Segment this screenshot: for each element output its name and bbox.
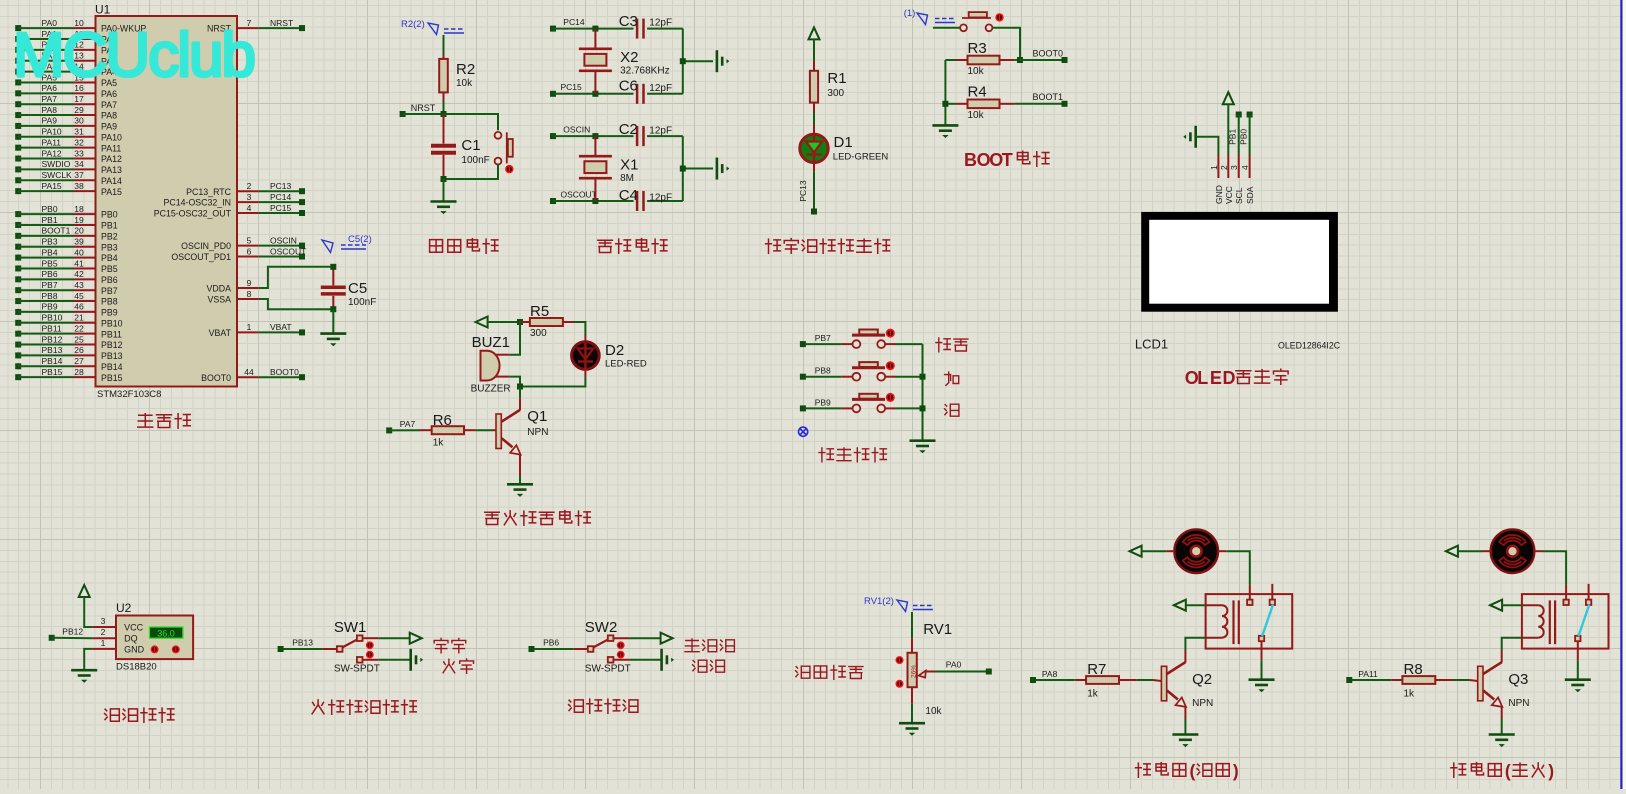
svg-text:NPN: NPN [1192, 698, 1213, 709]
power terminal (motor) [1446, 546, 1483, 557]
svg-text:PA11: PA11 [101, 143, 121, 153]
svg-text:8M: 8M [620, 173, 634, 184]
svg-text:41: 41 [74, 258, 84, 268]
svg-text:NRST: NRST [270, 18, 293, 28]
pin 17 PA7 wire/terminal PA7 [15, 94, 117, 110]
wire SW2 bottom [629, 659, 661, 661]
potentiometer RV1 10k [896, 621, 953, 717]
svg-text:PA8: PA8 [101, 111, 117, 121]
svg-text:9: 9 [247, 278, 252, 288]
pin 21 PB10 wire/terminal PB10 [15, 313, 122, 329]
wire relay contact to ground [1261, 660, 1263, 680]
svg-text:45: 45 [74, 291, 84, 301]
svg-text:Q3: Q3 [1508, 671, 1528, 688]
ground (alarm) [507, 484, 533, 497]
svg-text:Q1: Q1 [527, 408, 547, 425]
svg-text:GND: GND [1214, 185, 1224, 204]
svg-text:D2: D2 [605, 342, 624, 359]
transistor Q3 NPN [1478, 650, 1530, 719]
svg-text:43: 43 [74, 280, 84, 290]
svg-text:BOOT1: BOOT1 [1033, 92, 1064, 102]
ground keys [910, 441, 936, 454]
terminal PB7 [800, 333, 841, 347]
pin 14 PA4 wire/terminal PA4 [15, 61, 117, 77]
svg-text:26: 26 [74, 345, 84, 355]
wire relay contact to ground [1577, 660, 1579, 680]
pin 2 PC13_RTC [186, 181, 305, 197]
svg-text:PB9: PB9 [42, 302, 58, 312]
wire to BOOT button [933, 27, 960, 29]
power terminal (U2) [79, 585, 93, 627]
svg-text:PB0: PB0 [1238, 129, 1248, 145]
pin 19 PB1 wire/terminal PB1 [15, 215, 118, 231]
svg-text:PB12: PB12 [62, 627, 83, 637]
svg-text:PB4: PB4 [101, 253, 118, 263]
svg-text:LCD1: LCD1 [1135, 336, 1168, 351]
transistor Q2 NPN [1161, 650, 1213, 719]
svg-text:PC14-OSC32_IN: PC14-OSC32_IN [164, 198, 231, 208]
ground right [717, 50, 729, 72]
svg-text:PA9: PA9 [101, 122, 117, 132]
svg-text:PB3: PB3 [42, 237, 58, 247]
svg-text:D1: D1 [834, 134, 853, 151]
svg-text:VCC: VCC [1224, 186, 1234, 204]
svg-text:32.768KHz: 32.768KHz [620, 66, 669, 77]
wire D2 to junction [520, 377, 585, 387]
svg-text:R2: R2 [456, 61, 475, 78]
svg-text:C5: C5 [348, 280, 367, 297]
relay 继电器(通风) body [1206, 584, 1293, 660]
svg-text:PB15: PB15 [101, 373, 123, 383]
svg-text:37: 37 [74, 170, 84, 180]
ground BOOT circuit [932, 125, 958, 138]
svg-text:8: 8 [247, 289, 252, 299]
svg-text:OSCOUT: OSCOUT [561, 189, 597, 199]
pin 32 PA11 wire/terminal PA11 [15, 137, 121, 153]
wire PB1 to SCL pin [1238, 115, 1240, 156]
svg-text:VDDA: VDDA [207, 284, 232, 294]
junction collector node [517, 384, 523, 390]
wire top to R2 [443, 35, 445, 58]
svg-text:PB7: PB7 [42, 280, 58, 290]
power terminal (relay coil) [1174, 600, 1206, 611]
label 加 [945, 372, 959, 385]
pin 28 PB15 wire/terminal PB15 [15, 367, 122, 383]
wire emitter to ground [519, 476, 521, 484]
pin 37 PA14 wire/terminal SWCLK [15, 170, 122, 186]
svg-text:VCC: VCC [124, 623, 144, 633]
ground below C5 [320, 334, 346, 347]
junction C5 bottom [330, 306, 336, 312]
svg-text:B: B [964, 150, 977, 170]
svg-text:39: 39 [74, 237, 84, 247]
svg-text:PB0: PB0 [42, 204, 58, 214]
pin 26 PB13 wire/terminal PB13 [15, 345, 122, 361]
svg-text:PC13_RTC: PC13_RTC [186, 187, 231, 197]
wire coil bottom to collector [1185, 638, 1205, 650]
svg-text:NPN: NPN [1508, 698, 1529, 709]
terminal PA11 [1346, 669, 1391, 683]
svg-text:OLED12864I2C: OLED12864I2C [1278, 340, 1341, 350]
ground (OLED) [1183, 126, 1195, 148]
terminal PC15 [550, 82, 634, 97]
svg-text:PA0: PA0 [946, 660, 962, 670]
svg-text:PC13: PC13 [798, 180, 808, 202]
svg-text:BUZZER: BUZZER [471, 384, 511, 395]
svg-text:R7: R7 [1087, 661, 1106, 678]
svg-text:SWDIO: SWDIO [42, 159, 71, 169]
svg-text:3: 3 [101, 616, 106, 626]
svg-text:BOOT0: BOOT0 [1033, 49, 1064, 59]
svg-text:OSCOUT_PD1: OSCOUT_PD1 [171, 252, 231, 262]
svg-text:PB5: PB5 [42, 258, 58, 268]
capacitor C1 100nF [431, 114, 490, 179]
svg-text:PA6: PA6 [101, 89, 117, 99]
svg-text:): ) [1548, 761, 1554, 781]
svg-text:L: L [1197, 368, 1208, 388]
svg-text:28: 28 [74, 367, 84, 377]
svg-text:BUZ1: BUZ1 [472, 334, 510, 351]
svg-text:C3: C3 [619, 13, 638, 30]
resistor R7 1k [1075, 661, 1162, 700]
pin 7 NRST [207, 18, 305, 34]
svg-text:(: ( [1190, 761, 1196, 781]
svg-text:LED-GREEN: LED-GREEN [833, 152, 889, 163]
power terminal VCC (indicator) [809, 27, 820, 61]
label 继电器(通风) [1136, 761, 1239, 781]
capacitor C2 12pF [619, 121, 683, 146]
svg-text:12pF: 12pF [649, 126, 672, 137]
push button PB9 [841, 393, 895, 412]
label 未漏液 [685, 639, 734, 652]
svg-text:1: 1 [1209, 165, 1219, 170]
capacitor C6 12pF [619, 78, 683, 104]
junction BOOT0 node [1017, 57, 1023, 63]
svg-text:PA7: PA7 [42, 94, 58, 104]
svg-text:PB3: PB3 [101, 242, 118, 252]
label 测温模块 [105, 708, 174, 722]
net pointer label R2(2) [401, 19, 464, 35]
pin 5 OSCIN_PD0 [181, 235, 305, 251]
wire emitter to ground [1184, 719, 1186, 735]
svg-text:PA7: PA7 [101, 100, 117, 110]
svg-text:OSCIN: OSCIN [270, 235, 297, 245]
ground SW1 [411, 649, 423, 671]
terminal PB6 [529, 638, 574, 653]
svg-text:30: 30 [74, 116, 84, 126]
svg-text:D: D [1223, 368, 1236, 388]
svg-text:PA9: PA9 [42, 116, 58, 126]
svg-text:(: ( [1505, 761, 1511, 781]
svg-text:MCUclub: MCUclub [13, 21, 254, 90]
pin 20 PB2 wire/terminal BOOT1 [15, 226, 118, 242]
pin 25 PB12 wire/terminal PB12 [15, 334, 122, 350]
svg-text:1k: 1k [1087, 689, 1099, 700]
svg-text:C4: C4 [619, 187, 638, 204]
pin 44 BOOT0 [201, 367, 305, 383]
ground (relay) [1249, 680, 1275, 693]
svg-text:29: 29 [74, 105, 84, 115]
pin 46 PB9 wire/terminal PB9 [15, 302, 118, 318]
svg-text:RV1: RV1 [923, 621, 952, 638]
svg-text:PA7: PA7 [400, 419, 416, 429]
pin 42 PB6 wire/terminal PB6 [15, 269, 118, 285]
svg-text:12pF: 12pF [649, 18, 672, 29]
svg-text:VBAT: VBAT [270, 322, 292, 332]
svg-text:DS18B20: DS18B20 [116, 662, 157, 673]
wire to ground [443, 179, 445, 202]
resistor R5 300 [520, 303, 574, 339]
svg-text:VSSA: VSSA [208, 295, 232, 305]
svg-text:PB14: PB14 [42, 356, 63, 366]
pin 34 PA13 wire/terminal SWDIO [15, 159, 122, 175]
junction R4 left [942, 101, 948, 107]
svg-text:NPN: NPN [527, 427, 548, 438]
junction R5 left [517, 319, 523, 325]
relay 继电器(灭火) body [1522, 584, 1609, 660]
pin 10 PA0-WKUP wire/terminal PA0 [15, 18, 146, 34]
wire PB0 to SDA pin [1249, 115, 1251, 156]
wire wiper to PA0 [935, 671, 986, 673]
svg-text:NRST: NRST [411, 103, 436, 113]
junction bus PB9 [920, 405, 926, 411]
svg-text:34: 34 [74, 159, 84, 169]
svg-text:PB11: PB11 [101, 329, 122, 339]
svg-text:12pF: 12pF [649, 83, 672, 94]
svg-text:PB8: PB8 [42, 291, 58, 301]
svg-text:C1: C1 [461, 137, 480, 154]
display LCD1 OLED12864I2C body [1135, 155, 1341, 351]
label BOOT电路 [964, 150, 1049, 170]
svg-text:PA8: PA8 [42, 105, 58, 115]
wire top to RV1 [911, 612, 913, 638]
wire R3-R4 left vertical [944, 60, 946, 125]
svg-text:SWCLK: SWCLK [42, 170, 73, 180]
junction PC14 [592, 26, 598, 32]
pin 29 PA8 wire/terminal PA8 [15, 105, 117, 121]
svg-text:10k: 10k [968, 66, 985, 77]
svg-text:R8: R8 [1404, 661, 1423, 678]
wire keys bus vertical [922, 344, 924, 441]
junction right [680, 58, 686, 64]
net pointer label C5(2) [322, 234, 372, 253]
svg-text:PC15: PC15 [270, 203, 292, 213]
switch SW1 SW-SPDT [322, 619, 379, 675]
pin 16 PA6 wire/terminal PA6 [15, 83, 117, 99]
svg-text:U1: U1 [95, 3, 111, 17]
terminal PC13 (indicator) [811, 209, 817, 215]
pin 15 PA5 wire/terminal PA5 [15, 72, 117, 88]
svg-text:PB1: PB1 [42, 215, 58, 225]
pin 3 PC14-OSC32_IN [164, 192, 305, 208]
svg-text:OSCIN_PD0: OSCIN_PD0 [181, 241, 231, 251]
label 漏液 [693, 660, 725, 672]
label 减 [945, 404, 959, 416]
wire emitter to ground [1501, 719, 1503, 735]
resistor R6 1k [420, 412, 497, 449]
motor (fan) 继电器(灭火) [1483, 529, 1543, 573]
svg-text:R4: R4 [968, 84, 987, 101]
svg-text:VBAT: VBAT [209, 328, 232, 338]
capacitor C4 12pF [619, 187, 683, 211]
main chip U1 STM32F103C8 body [95, 3, 237, 401]
svg-text:SW1: SW1 [334, 619, 367, 636]
svg-text:PA12: PA12 [42, 148, 62, 158]
label 火灾 [443, 659, 473, 673]
svg-text:PA12: PA12 [101, 154, 122, 164]
svg-text:10k: 10k [925, 706, 942, 717]
svg-text:PB10: PB10 [42, 313, 63, 323]
svg-text:OSCOUT: OSCOUT [270, 246, 306, 256]
terminal NRST [400, 103, 444, 117]
svg-text:6: 6 [247, 246, 252, 256]
svg-text:R3: R3 [968, 40, 987, 57]
svg-text:PA10: PA10 [101, 132, 122, 142]
svg-text:21: 21 [74, 313, 84, 323]
wire OLED GND pin [1196, 137, 1219, 155]
terminal PC14 [550, 17, 634, 32]
svg-text:SW-SPDT: SW-SPDT [585, 664, 631, 675]
ground SW2 [662, 649, 674, 671]
svg-text:3: 3 [247, 192, 252, 202]
svg-text:PB8: PB8 [101, 297, 118, 307]
pin 31 PA10 wire/terminal PA10 [15, 127, 122, 143]
svg-text:PB8: PB8 [815, 366, 831, 376]
svg-text:42: 42 [74, 269, 84, 279]
svg-text:27: 27 [74, 356, 84, 366]
svg-text:R2(2): R2(2) [401, 19, 425, 30]
svg-text:1: 1 [247, 322, 252, 332]
svg-text:PA13: PA13 [101, 165, 122, 175]
pin 11 PA1 wire/terminal PA1 [15, 29, 117, 45]
wire RV1 to ground [911, 704, 913, 723]
led D2 LED-RED [572, 335, 647, 377]
wire NRST node to button [444, 114, 499, 130]
terminal OSCOUT [550, 189, 634, 204]
svg-text:10k: 10k [968, 110, 985, 121]
svg-text:PC14: PC14 [563, 17, 585, 27]
svg-text:36.0: 36.0 [157, 628, 175, 638]
junction NRST node [441, 111, 447, 117]
wire U2 GND [84, 649, 93, 670]
pin 9 VDDA [207, 278, 259, 294]
svg-text:PB5: PB5 [101, 264, 118, 274]
pin 18 PB0 wire/terminal PB0 [15, 204, 118, 220]
resistor R3 10k [945, 40, 1020, 77]
output arrow SW1 top [410, 633, 422, 644]
svg-text:R5: R5 [530, 303, 549, 320]
ground (U2) [71, 670, 97, 683]
svg-text:PB11: PB11 [42, 323, 62, 333]
label 复位电路 [430, 239, 498, 254]
svg-text:LED-RED: LED-RED [605, 359, 647, 370]
terminal PB0 (OLED SDA) [1238, 112, 1252, 145]
svg-text:PB12: PB12 [101, 340, 123, 350]
svg-text:17: 17 [74, 94, 84, 104]
label 继电器(灭火) [1451, 761, 1554, 781]
pin 40 PB4 wire/terminal PB4 [15, 247, 118, 263]
wire BOOT0 to terminal [1020, 59, 1062, 61]
wire C5 to ground [332, 309, 334, 333]
label 设置 [936, 338, 968, 352]
wire button to C1 bottom [444, 164, 499, 179]
terminal PB8 [800, 366, 841, 380]
transistor Q1 NPN [496, 387, 548, 477]
svg-text:38: 38 [74, 181, 84, 191]
wire SW1 bottom [378, 659, 410, 661]
resistor R4 10k [945, 84, 1062, 122]
svg-text:GND: GND [124, 644, 145, 654]
pin 12 PA2 wire/terminal PA2 [15, 40, 117, 56]
svg-text:31: 31 [74, 127, 84, 137]
label 火焰检测模块 [312, 700, 416, 714]
svg-text:4: 4 [1240, 165, 1250, 170]
svg-text:PB13: PB13 [292, 638, 313, 648]
svg-text:R1: R1 [827, 70, 846, 87]
svg-text:PA11: PA11 [1358, 669, 1378, 679]
ground (RV1) [899, 723, 925, 736]
label 程序运行指示灯 [766, 239, 890, 254]
pin 13 PA3 wire/terminal PA3 [15, 51, 117, 67]
svg-text:300: 300 [530, 328, 547, 339]
svg-text:X1: X1 [620, 157, 638, 174]
net pointer label RV1(2) [864, 596, 933, 612]
svg-text:2: 2 [101, 627, 106, 637]
svg-text:4: 4 [247, 203, 252, 213]
svg-text:PC15: PC15 [561, 82, 583, 92]
svg-text:1k: 1k [433, 438, 445, 449]
svg-text:PB4: PB4 [42, 247, 58, 257]
svg-text:46: 46 [74, 302, 84, 312]
terminal PA7 [386, 419, 419, 433]
terminal PB9 [800, 397, 841, 411]
label 声光报警电路 [485, 511, 591, 526]
svg-text:PB7: PB7 [101, 286, 118, 296]
resistor R2 10k [439, 55, 475, 101]
svg-text:PB13: PB13 [42, 345, 63, 355]
svg-text:X2: X2 [620, 49, 638, 66]
label 晶振电路 [598, 239, 667, 254]
terminal PB13 [278, 638, 323, 653]
svg-text:PB1: PB1 [1228, 129, 1238, 145]
pin 33 PA12 wire/terminal PA12 [15, 148, 122, 164]
svg-text:PB9: PB9 [101, 308, 118, 318]
terminal PA0 (RV1) [946, 660, 992, 675]
terminal OSCIN [550, 125, 634, 140]
label 液体检测 [569, 699, 638, 713]
resistor R1 300 [810, 61, 847, 112]
wire motor to relay [1543, 551, 1567, 584]
capacitor C5 100nF with VDDA/VSSA wiring [259, 267, 377, 309]
svg-text:Q2: Q2 [1192, 671, 1212, 688]
wire PB9 to bus [896, 407, 923, 409]
svg-text:33: 33 [74, 148, 84, 158]
junction C1 bottom [441, 176, 447, 182]
svg-text:R6: R6 [433, 412, 452, 429]
svg-text:BOOT1: BOOT1 [42, 226, 71, 236]
svg-text:100nF: 100nF [461, 155, 489, 166]
svg-text:19: 19 [74, 215, 84, 225]
pin 45 PB8 wire/terminal PB8 [15, 291, 118, 307]
svg-text:PC13: PC13 [270, 181, 292, 191]
svg-text:BOOT0: BOOT0 [201, 373, 231, 383]
svg-text:PA11: PA11 [42, 137, 62, 147]
wire right side vertical [683, 29, 713, 94]
svg-text:PA14: PA14 [101, 176, 122, 186]
crystal X2 32.768KHz [579, 29, 670, 94]
power terminal (alarm) [476, 317, 520, 328]
wire buzzer top [509, 322, 520, 355]
